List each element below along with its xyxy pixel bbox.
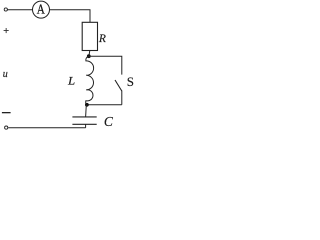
wire (switch branch bottom, back to node B): [87, 104, 122, 106]
svg-text:u: u: [3, 69, 8, 80]
wire (resistor bottom to node A): [88, 51, 91, 57]
wire (node A to switch top): [89, 56, 122, 74]
label + (source polarity): [4, 28, 9, 33]
svg-text:C: C: [104, 114, 114, 129]
svg-text:S: S: [127, 74, 134, 89]
capacitor C (top plate): [72, 116, 96, 118]
capacitor C (bottom plate): [72, 123, 96, 125]
wire (ammeter to top-right corner, down to resistor): [50, 10, 90, 23]
svg-text:R: R: [98, 33, 106, 45]
wire (node B to capacitor top plate): [85, 105, 88, 117]
wire (terminal T1 to ammeter): [8, 9, 33, 11]
label - (source polarity): [2, 112, 11, 113]
switch S (open blade): [115, 80, 122, 91]
wire (capacitor bottom lead): [85, 124, 87, 128]
ammeter A (U1): [33, 1, 50, 18]
resistor R: [82, 22, 97, 50]
terminal T2 (bottom-left open circle): [5, 126, 8, 129]
node B (junction dot): [85, 103, 89, 107]
inductor L (coil): [86, 56, 94, 104]
svg-text:L: L: [67, 74, 75, 87]
svg-text:A: A: [37, 2, 46, 17]
wire (bottom return to terminal T2): [8, 127, 85, 129]
node A (junction dot): [87, 54, 91, 58]
terminal T1 (top-left open circle): [4, 8, 7, 11]
wire (switch bottom lead down): [121, 91, 123, 105]
